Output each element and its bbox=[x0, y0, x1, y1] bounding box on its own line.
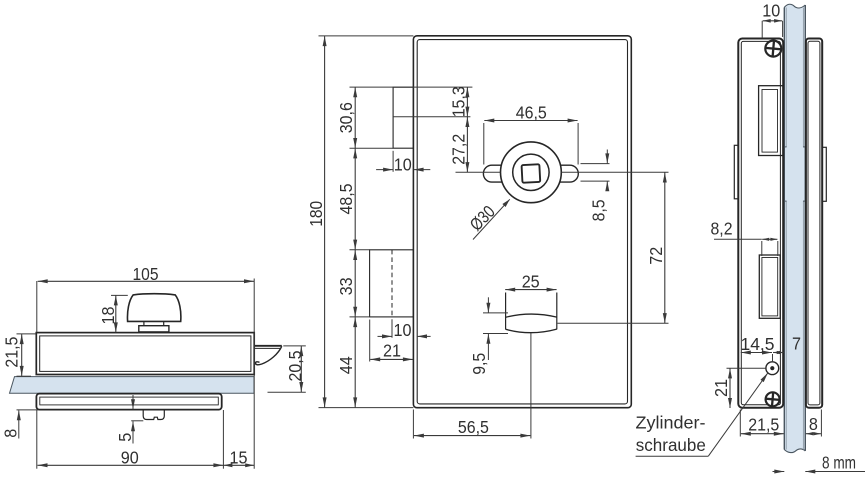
svg-text:44: 44 bbox=[336, 356, 356, 374]
svg-text:25: 25 bbox=[522, 272, 540, 292]
svg-text:21: 21 bbox=[711, 379, 731, 397]
svg-text:48,5: 48,5 bbox=[336, 184, 356, 215]
svg-text:27,2: 27,2 bbox=[448, 134, 468, 165]
svg-text:18: 18 bbox=[98, 307, 118, 325]
svg-text:7: 7 bbox=[792, 333, 801, 353]
svg-text:105: 105 bbox=[133, 264, 159, 284]
svg-text:15: 15 bbox=[230, 448, 248, 468]
svg-text:72: 72 bbox=[646, 247, 666, 265]
svg-text:21,5: 21,5 bbox=[1, 337, 21, 368]
svg-text:9,5: 9,5 bbox=[469, 353, 489, 375]
svg-text:20,5: 20,5 bbox=[285, 351, 305, 382]
svg-text:5: 5 bbox=[115, 433, 135, 442]
svg-text:30,6: 30,6 bbox=[336, 102, 356, 133]
svg-text:90: 90 bbox=[121, 448, 139, 468]
svg-text:10: 10 bbox=[394, 320, 412, 340]
svg-text:56,5: 56,5 bbox=[458, 417, 489, 437]
svg-text:14,5: 14,5 bbox=[741, 334, 775, 354]
svg-text:10: 10 bbox=[394, 155, 412, 175]
svg-text:8,5: 8,5 bbox=[588, 199, 608, 221]
svg-text:schraube: schraube bbox=[636, 435, 706, 455]
svg-text:8: 8 bbox=[809, 414, 818, 434]
svg-text:180: 180 bbox=[306, 201, 326, 227]
svg-text:46,5: 46,5 bbox=[516, 103, 547, 123]
svg-text:Zylinder-: Zylinder- bbox=[636, 412, 706, 432]
svg-text:8: 8 bbox=[1, 429, 21, 438]
svg-text:21: 21 bbox=[383, 340, 401, 360]
svg-text:10: 10 bbox=[762, 0, 780, 20]
svg-text:33: 33 bbox=[336, 277, 356, 295]
svg-text:8,2: 8,2 bbox=[711, 218, 733, 238]
svg-text:8 mm: 8 mm bbox=[822, 452, 856, 472]
svg-text:21,5: 21,5 bbox=[748, 415, 779, 435]
svg-text:15,3: 15,3 bbox=[448, 86, 468, 117]
